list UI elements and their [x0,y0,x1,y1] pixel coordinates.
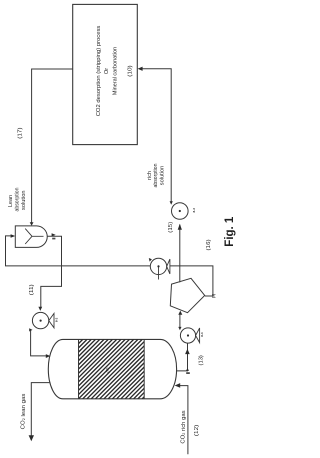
svg-text:8-3: 8-3 [192,208,196,213]
svg-text:(15): (15) [168,222,174,233]
tangent mark at pump 8-1 [149,258,152,262]
label rich absorption solution [147,163,166,187]
tiny tag 8-1 [52,238,55,240]
wire stream 15: tank to pump 8-3 [179,225,181,283]
arrow into cooler top [30,222,34,226]
arrow into pump 8-2 top [38,307,42,311]
svg-text:Lean: Lean [8,195,14,207]
arrow CO2 lean gas [29,435,34,441]
svg-text:(16): (16) [206,239,212,250]
svg-text:CO2 rich gas: CO2 rich gas [181,410,187,443]
svg-text:Or: Or [104,68,110,74]
wire: recirculation into cooler left [6,236,151,266]
arrow up into pump 8-3 [178,224,182,230]
absorber packing hatch [19,339,201,398]
svg-text:(11): (11) [29,284,35,295]
pump 8-2 [32,312,58,328]
wire: pump 8-3 discharge to box [140,69,171,203]
arrow into absorber left cap [46,354,51,358]
svg-text:CO2 lean gas: CO2 lean gas [20,393,26,429]
arrow into box right edge [138,67,143,71]
tank pentagon (9) [170,278,204,312]
wire stream 17: box to cooler [32,69,73,223]
svg-text:(6): (6) [105,367,110,373]
svg-text:absorption: absorption [153,163,159,187]
process box (10) [73,4,138,144]
svg-text:8-4: 8-4 [200,332,204,337]
flow mark on cooler outlet [52,233,56,236]
tiny tag 14 [186,372,190,374]
cooler body [15,226,47,248]
wire: CO2 rich gas in [178,386,188,455]
arrow up into pump 8-4 [185,349,190,354]
svg-text:solution: solution [160,166,166,186]
corner mark [186,368,189,371]
wire: CO2 lean gas out [31,383,49,436]
pump 8-4 [180,328,204,343]
svg-text:(9): (9) [212,294,216,298]
arrow into tank bottom [178,311,182,315]
svg-text:solution: solution [21,190,27,210]
arrow into cooler left [11,234,16,238]
wire: pump 8-4 to tank [179,315,181,328]
svg-text:(12): (12) [194,425,200,436]
cooler internal Y [25,229,43,244]
arrow into absorber right cap [175,383,181,388]
wire stream 11: cooler outlet to pump 8-2 [41,236,62,307]
tangent arrow at pump 8-2 [29,328,32,331]
wire stream 13: absorber to pump 8-4 [177,343,188,371]
svg-text:Fig. 1: Fig. 1 [224,216,236,247]
svg-text:8-2: 8-2 [55,317,59,322]
svg-text:(10): (10) [127,65,133,76]
svg-text:Mineral carbonation: Mineral carbonation [112,47,118,95]
absorber vessel (6) [48,339,176,398]
svg-text:(13): (13) [198,355,204,365]
wire: pump 8-2 to absorber [31,330,47,356]
svg-text:rich: rich [147,171,153,180]
pump 8-3 [172,203,197,220]
tangent arrow at pump 8-4 [178,327,181,330]
pump 8-1 [150,258,170,279]
svg-text:absorption: absorption [15,187,21,211]
label lean absorption solution [8,187,27,211]
tangent arrow at pump 8-3 [170,201,173,205]
svg-text:CO2 desorption (stripping) pro: CO2 desorption (stripping) process [96,25,102,116]
svg-text:(17): (17) [18,127,24,138]
wire stream 16: pump 8-1 to tank right vertex [170,266,213,296]
